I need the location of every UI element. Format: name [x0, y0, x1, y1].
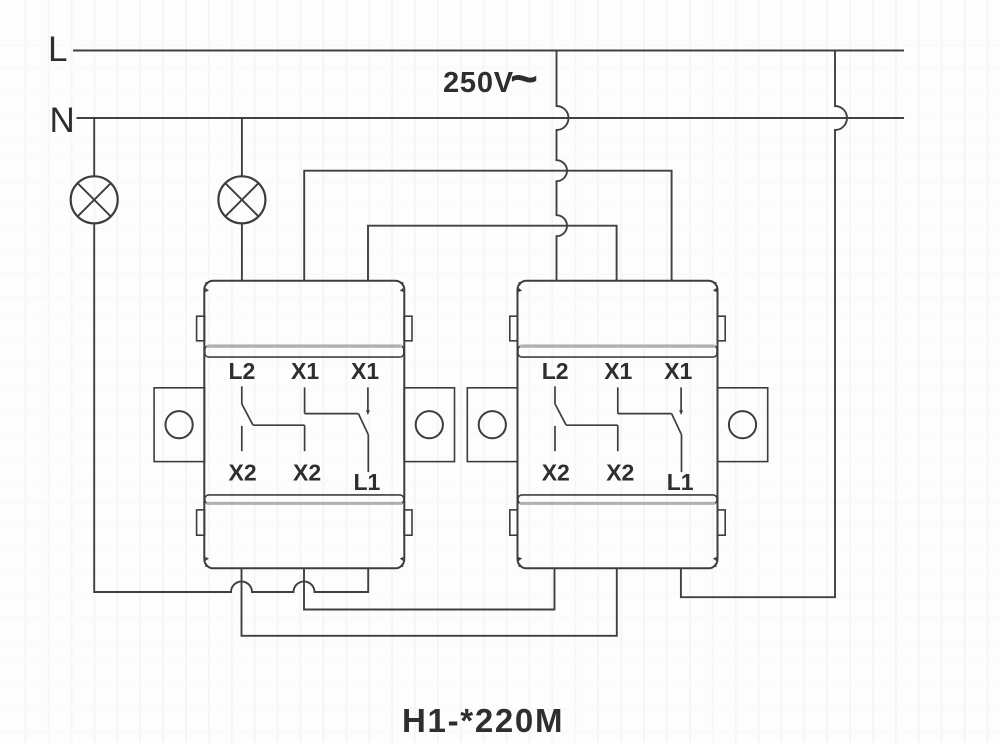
S2 switch arrow tip — [679, 410, 683, 415]
svg-text:X1: X1 — [291, 358, 319, 384]
switch module S2 — [467, 281, 767, 569]
S2 upper parting band — [518, 346, 717, 358]
svg-text:L: L — [48, 30, 67, 69]
switch module S1 — [154, 281, 454, 569]
svg-text:X2: X2 — [542, 460, 570, 486]
S1 side clips — [197, 316, 412, 535]
S2 right mounting ear — [717, 388, 767, 462]
wire: N to lamp E2 — [241, 118, 243, 176]
S2 left mounting ear — [467, 388, 517, 462]
wire: module S1 X1(right) to module S2 X1(left) — [368, 226, 617, 282]
wire: module S2 terminal L1 up to L rail (hops over N) — [681, 51, 847, 598]
wire: module S1 X2(left) to module S2 X2(right) — [242, 568, 617, 636]
wire: module S1 X2(right) to module S2 X2(left) — [304, 568, 555, 609]
svg-text:H1-*220M: H1-*220M — [402, 702, 564, 739]
S2 switch X1-L1 — [618, 387, 682, 472]
S2 corner notches — [518, 282, 717, 568]
svg-text:X1: X1 — [351, 358, 379, 384]
S2 body outline — [518, 281, 718, 569]
S1 body outline — [204, 281, 404, 569]
svg-text:X1: X1 — [664, 358, 692, 384]
S1 switch arrow tip — [366, 410, 370, 415]
S1 corner notches — [205, 282, 404, 568]
svg-text:L2: L2 — [229, 358, 256, 384]
S1 switch X1-L1 — [305, 387, 369, 472]
wire: N rail — [77, 117, 905, 119]
S2 switch L2-X2 — [555, 386, 618, 451]
wire: module S1 X1(left) to module S2 X1(right) — [304, 171, 671, 282]
svg-text:X2: X2 — [606, 460, 634, 486]
S1 lower parting band — [205, 495, 404, 504]
S1 switch L2-X2 — [242, 386, 305, 451]
S2 lower parting band — [518, 495, 717, 504]
S2 side clips — [510, 316, 725, 535]
wire: L rail to module S2 terminal L2 (hops over N and two link wires) — [557, 51, 569, 282]
wire: lamp E1 to module S1 terminal L1 (hops over X2 wires) — [94, 223, 368, 592]
svg-text:X1: X1 — [604, 358, 632, 384]
svg-text:N: N — [50, 101, 75, 140]
svg-text:250V: 250V — [443, 67, 514, 99]
S1 left mounting ear — [154, 388, 204, 462]
lamp E2 — [218, 176, 265, 223]
svg-text:X2: X2 — [293, 460, 321, 486]
svg-text:L1: L1 — [667, 469, 694, 495]
wire: lamp E2 to module S1 terminal L2 — [241, 223, 243, 280]
svg-text:~: ~ — [510, 53, 538, 106]
svg-text:L1: L1 — [354, 469, 381, 495]
S1 right mounting ear — [404, 388, 454, 462]
svg-text:X2: X2 — [229, 460, 257, 486]
svg-text:L2: L2 — [542, 358, 569, 384]
wire: L rail — [73, 50, 904, 52]
wire: N to lamp E1 — [93, 118, 95, 176]
S1 upper parting band — [205, 346, 404, 358]
lamp E1 — [71, 176, 118, 223]
